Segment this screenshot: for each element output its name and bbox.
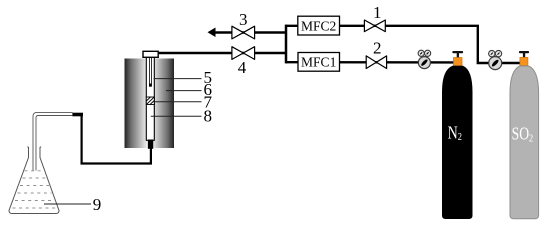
N2 cylinder — [442, 66, 473, 219]
tube bottom plug — [148, 140, 153, 149]
wire MFC2 line to SO2 regulator — [286, 26, 495, 63]
wire manifold vertical — [285, 25, 288, 64]
svg-text:4: 4 — [238, 58, 247, 77]
wire MFC1 line to N2 regulator — [286, 61, 455, 64]
leader line 9 — [44, 203, 91, 205]
regulator SO2 — [489, 50, 502, 69]
leader line 5 — [154, 78, 202, 80]
valve 4 — [232, 47, 255, 60]
tube connector — [72, 113, 83, 117]
svg-text:MFC1: MFC1 — [301, 55, 336, 70]
valve 1 — [364, 20, 385, 32]
wire vent line — [212, 31, 287, 33]
flask — [9, 147, 59, 214]
MFC2 box — [298, 16, 340, 35]
N2 cylinder valve (orange) — [454, 58, 463, 66]
N2 cylinder valve stem — [452, 51, 463, 59]
wire reactor outlet to flask — [82, 114, 151, 163]
wire feed line to reactor — [158, 52, 287, 54]
MFC1 box — [298, 53, 340, 72]
SO2 cylinder valve (orange) — [520, 57, 528, 65]
svg-text:8: 8 — [203, 107, 212, 126]
svg-text:2: 2 — [373, 39, 382, 58]
reactor cap — [143, 51, 158, 57]
regulator N2 — [418, 50, 431, 68]
label SO2 — [512, 125, 534, 145]
label N2 — [448, 124, 463, 143]
vent arrow — [208, 28, 216, 38]
valve 2 — [366, 56, 386, 69]
wire SO2 regulator to cylinder valve — [495, 62, 521, 64]
leader line 7 — [153, 101, 202, 103]
svg-text:9: 9 — [93, 195, 102, 214]
flask liquid — [13, 171, 57, 208]
leader line 6 — [166, 90, 202, 92]
furnace body — [125, 59, 175, 149]
valve 3 — [232, 26, 255, 39]
SO2 cylinder valve stem — [519, 51, 529, 59]
inner rod (5) — [149, 57, 152, 86]
svg-text:1: 1 — [373, 3, 382, 22]
svg-text:3: 3 — [239, 10, 248, 29]
catalyst bed hatch (7) — [146, 97, 154, 105]
SO2 cylinder — [510, 66, 539, 219]
leader line 8 — [151, 115, 202, 117]
reactor tube — [146, 57, 154, 140]
glass bend tube — [33, 112, 73, 170]
svg-text:MFC2: MFC2 — [301, 18, 336, 33]
